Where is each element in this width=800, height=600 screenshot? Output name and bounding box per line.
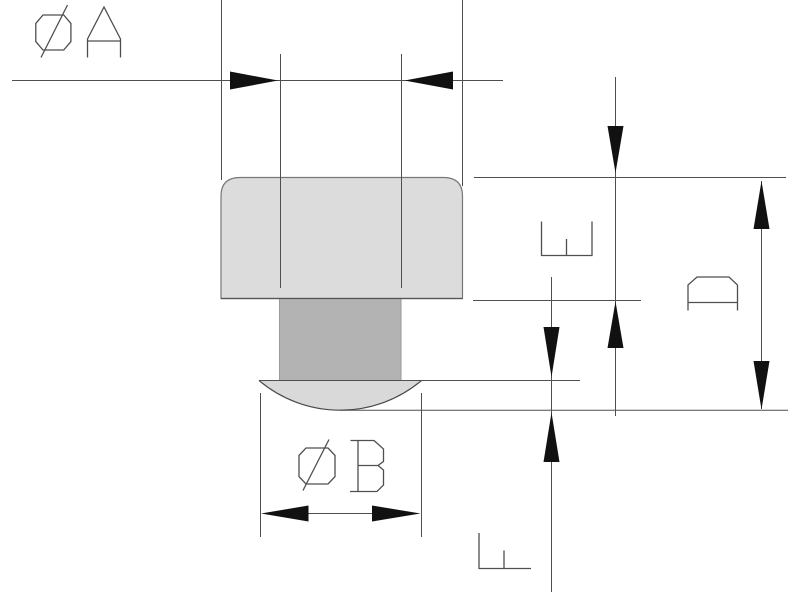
arrow E top (points down, tip at y=173) bbox=[608, 126, 624, 173]
label letter F (rotated 90 CCW) bbox=[479, 533, 531, 569]
arrow OA right (points left, tip near stem-right ext line) bbox=[405, 72, 454, 90]
extension line V3 stem right bbox=[401, 54, 403, 288]
stem left edge bbox=[279, 299, 281, 380]
leader and dimension line OA (horizontal, y=80.5) bbox=[12, 80, 503, 82]
stem right edge bbox=[400, 299, 402, 380]
E dimension line (x=615) bbox=[615, 77, 617, 416]
arrow OB left (points left, tip at x=260) bbox=[261, 506, 309, 522]
extension line V2 stem left bbox=[280, 54, 282, 288]
label letter D (rotated 90 CCW, right side) bbox=[688, 277, 739, 311]
D dimension line (x=761) bbox=[761, 181, 763, 409]
extension line cap bottom extended right (y=300.5) bbox=[473, 300, 641, 302]
extension line cap top extended right (y=177.5) bbox=[474, 177, 786, 179]
label letter B of OB bbox=[350, 441, 384, 492]
extension line V1 cap left bbox=[221, 0, 223, 180]
arrow F bottom (points up, tip at y=411) bbox=[544, 413, 560, 463]
OB extension line right (x=421.5) bbox=[421, 393, 423, 537]
arrow D top (points up, tip at y=181) bbox=[754, 181, 770, 229]
label letter A of OA bbox=[88, 7, 121, 58]
label letter E (rotated 90 CCW, right side) bbox=[542, 222, 593, 256]
extension line V4 cap right bbox=[462, 0, 464, 186]
part dome (formed end, circular segment) bbox=[259, 381, 422, 411]
part cap (head, rounded top corners) bbox=[221, 178, 463, 299]
arrow F top (points down, tip at y=377) bbox=[544, 327, 560, 377]
arrow E bottom (points up, tip at y=298) bbox=[608, 302, 624, 349]
OB extension line left (x=260) bbox=[260, 393, 262, 537]
label diameter symbol of OB (octagon with slash) bbox=[299, 440, 335, 491]
OB dimension line (y=515) bbox=[306, 513, 374, 515]
cap bottom edge line bbox=[221, 298, 463, 300]
dome arc outline bbox=[259, 381, 422, 411]
label diameter symbol of OA (octagon with slash) bbox=[36, 5, 71, 58]
arrow D bottom (points down, tip at y=406) bbox=[754, 361, 770, 410]
part stem (shank) bbox=[280, 299, 402, 381]
dome chord / stem bottom line extended right bbox=[259, 380, 580, 382]
arrow OB right (points right, tip at x=421.5) bbox=[372, 506, 421, 522]
F dimension line (x=551.5) bbox=[551, 277, 553, 592]
extension line dome bottom extended right (y=408.5) bbox=[340, 409, 788, 411]
arrow OA left (points right, tip at stem-left ext line) bbox=[230, 72, 278, 90]
